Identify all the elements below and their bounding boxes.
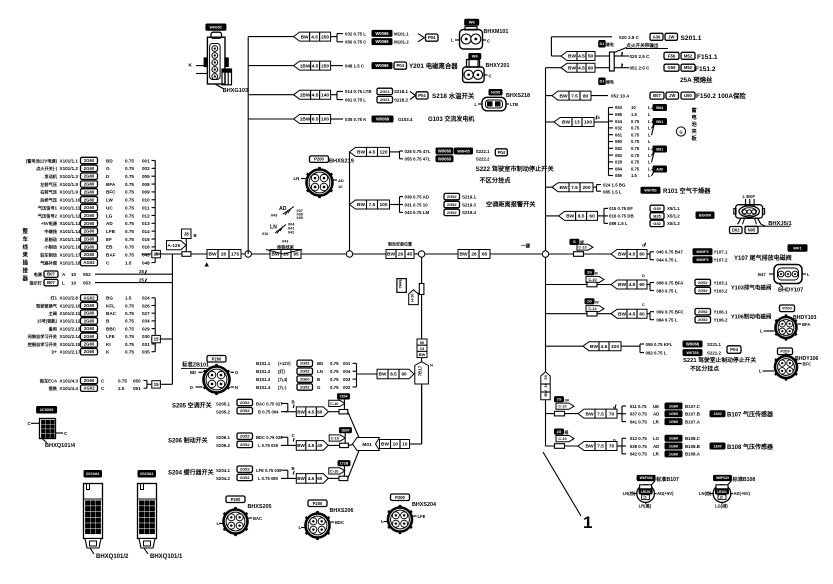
svg-text:60: 60 (317, 409, 323, 414)
svg-text:10: 10 (393, 442, 399, 448)
svg-text:B108 气压传感器: B108 气压传感器 (727, 443, 774, 451)
svg-text:池: 池 (692, 120, 698, 128)
svg-text:024: 024 (142, 296, 150, 301)
svg-text:驻车制动: 驻车制动 (40, 252, 58, 259)
svg-text:175: 175 (231, 252, 239, 258)
svg-text:BHXY201: BHXY201 (486, 63, 510, 69)
svg-text:2G: 2G (557, 430, 562, 434)
svg-text:200: 200 (582, 185, 590, 191)
svg-text:C-10: C-10 (588, 278, 596, 282)
svg-text:LN: LN (317, 369, 323, 374)
svg-text:2G: 2G (587, 300, 592, 304)
svg-text:2G52: 2G52 (447, 202, 458, 207)
svg-text:0.75: 0.75 (125, 334, 134, 339)
svg-text:035 0.75 K: 035 0.75 K (345, 117, 367, 122)
svg-text:标准B108: 标准B108 (732, 475, 756, 483)
svg-text:S222 驾驶室市制动停止开关: S222 驾驶室市制动停止开关 (476, 165, 555, 173)
svg-text:6.5: 6.5 (312, 117, 319, 123)
svg-text:45: 45 (407, 252, 413, 258)
svg-text:W0066: W0066 (375, 39, 389, 44)
svg-text:BAF: BAF (106, 253, 116, 258)
svg-text:X101/1.2: X101/1.2 (60, 166, 79, 171)
svg-text:X5/1.1: X5/1.1 (667, 206, 680, 211)
svg-text:B108.B: B108.B (685, 444, 700, 449)
svg-text:W0066: W0066 (375, 31, 389, 36)
svg-text:H-10: H-10 (411, 294, 415, 302)
svg-text:标准B107: 标准B107 (655, 475, 679, 483)
svg-text:A-125: A-125 (167, 243, 180, 248)
svg-text:B47: B47 (758, 272, 766, 277)
svg-text:LTB: LTB (510, 102, 518, 107)
svg-text:25: 25 (139, 269, 144, 274)
svg-text:4.5: 4.5 (601, 344, 608, 350)
svg-text:BD: BD (190, 370, 196, 375)
svg-text:器: 器 (22, 274, 29, 282)
svg-text:2G60: 2G60 (84, 213, 95, 218)
svg-text:0.75: 0.75 (125, 166, 134, 171)
svg-text:8.5: 8.5 (578, 214, 585, 220)
svg-text:7.5: 7.5 (369, 202, 376, 208)
svg-text:X101/2.13: X101/2.13 (60, 326, 81, 331)
svg-text:W0066: W0066 (686, 342, 700, 347)
svg-text:S219.4: S219.4 (462, 210, 476, 215)
svg-text:B04: B04 (656, 106, 664, 110)
svg-text:LR101: LR101 (717, 490, 727, 494)
svg-text:1G60: 1G60 (669, 404, 678, 408)
svg-text:140: 140 (321, 92, 329, 98)
svg-text:L 0.75 080: L 0.75 080 (258, 476, 279, 481)
svg-text:BDC: BDC (335, 520, 344, 525)
svg-text:电源: 电源 (34, 271, 43, 278)
svg-text:W0060: W0060 (438, 156, 452, 161)
svg-text:AD: AD (653, 444, 659, 449)
svg-text:L: L (648, 119, 651, 124)
svg-text:026: 026 (142, 303, 150, 308)
svg-text:AD: AD (106, 221, 113, 226)
svg-text:LG: LG (653, 436, 660, 441)
svg-text:089 1.5 L: 089 1.5 L (609, 221, 628, 226)
svg-text:线: 线 (23, 243, 29, 251)
svg-text:80: 80 (583, 93, 589, 99)
svg-text:BHXQ101/1: BHXQ101/1 (150, 554, 183, 560)
svg-text:A30: A30 (653, 34, 661, 39)
svg-text:B07: B07 (47, 272, 55, 277)
svg-text:2G60: 2G60 (84, 311, 95, 316)
svg-text:051: 051 (133, 386, 141, 391)
svg-text:S206.1: S206.1 (216, 435, 230, 440)
svg-text:BHXQ101/2: BHXQ101/2 (96, 554, 129, 560)
svg-text:26: 26 (398, 252, 404, 258)
svg-text:009 0.75 BFC: 009 0.75 BFC (656, 310, 684, 315)
svg-text:BW: BW (562, 120, 570, 126)
svg-text:70: 70 (609, 444, 615, 450)
svg-text:020 2.5 C: 020 2.5 C (619, 35, 640, 40)
svg-text:084: 084 (615, 166, 623, 171)
svg-text:B108.C: B108.C (685, 436, 701, 441)
svg-text:P04: P04 (498, 150, 506, 155)
svg-text:BHXG103: BHXG103 (223, 88, 249, 94)
svg-text:BW: BW (209, 252, 217, 258)
svg-text:气压信号2: 气压信号2 (38, 212, 58, 219)
svg-text:R101 空气干燥器: R101 空气干燥器 (663, 187, 711, 195)
svg-text:2G60: 2G60 (84, 326, 95, 331)
svg-text:标准ZB101: 标准ZB101 (181, 361, 209, 369)
svg-text:2G21: 2G21 (380, 97, 391, 102)
svg-text:061: 061 (615, 132, 623, 137)
svg-text:1.5: 1.5 (125, 260, 132, 265)
svg-text:X101/1.13: X101/1.13 (60, 221, 81, 226)
svg-text:LR: LR (653, 419, 660, 424)
svg-text:10: 10 (643, 496, 647, 500)
svg-text:LN: LN (294, 176, 300, 181)
svg-text:BW: BW (297, 409, 305, 414)
svg-text:BW: BW (568, 65, 576, 71)
svg-text:P200: P200 (782, 306, 792, 311)
svg-text:60: 60 (639, 311, 645, 317)
svg-text:AD(+5V): AD(+5V) (734, 491, 751, 496)
svg-text:D: D (613, 437, 616, 442)
svg-text:X101/1.10: X101/1.10 (60, 198, 81, 203)
svg-text:BD: BD (317, 361, 323, 366)
svg-text:X101/4.3: X101/4.3 (60, 378, 79, 383)
svg-text:W0066: W0066 (375, 63, 389, 68)
svg-text:B: B (292, 466, 295, 471)
svg-text:BW: BW (297, 476, 305, 481)
svg-text:LW: LW (106, 198, 114, 203)
svg-text:15号(钥匙): 15号(钥匙) (37, 318, 58, 325)
svg-text:15: 15 (154, 382, 160, 387)
svg-text:045 0.75 B47: 045 0.75 B47 (656, 250, 683, 255)
svg-text:B: B (595, 271, 598, 276)
svg-text:G103 交流发电机: G103 交流发电机 (428, 115, 474, 123)
svg-text:2G: 2G (587, 270, 592, 274)
svg-text:0.75: 0.75 (125, 182, 134, 187)
svg-text:L: L (648, 112, 651, 117)
svg-text:搭铁: 搭铁 (49, 385, 58, 392)
svg-text:B07: B07 (47, 280, 55, 285)
svg-text:3K: 3K (565, 398, 570, 403)
svg-text:B101.2: B101.2 (256, 369, 271, 374)
svg-text:X101/1.11: X101/1.11 (60, 205, 81, 210)
svg-text:2G21: 2G21 (380, 89, 391, 94)
svg-text:0.75: 0.75 (118, 378, 127, 383)
svg-text:AG02: AG02 (83, 386, 95, 391)
svg-text:2G60: 2G60 (84, 174, 95, 179)
svg-text:EF: EF (106, 237, 112, 242)
svg-text:X101/1.1: X101/1.1 (60, 158, 79, 163)
svg-text:2G52: 2G52 (240, 467, 251, 472)
svg-text:13: 13 (574, 120, 580, 126)
svg-text:1G60: 1G60 (669, 444, 678, 448)
svg-text:042 0.75: 042 0.75 (630, 452, 648, 457)
svg-text:4.5: 4.5 (312, 92, 319, 98)
svg-text:W675S: W675S (644, 189, 657, 193)
svg-text:L: L (648, 139, 651, 144)
svg-text:0.75: 0.75 (125, 198, 134, 203)
svg-text:LFE 0.75 030: LFE 0.75 030 (256, 468, 282, 473)
svg-text:4.5: 4.5 (308, 409, 315, 414)
svg-text:016 0.75 DB: 016 0.75 DB (609, 214, 634, 219)
svg-text:089: 089 (615, 173, 623, 178)
svg-text:2.5: 2.5 (118, 386, 125, 391)
svg-text:S204.1: S204.1 (216, 468, 230, 473)
svg-text:JW: JW (669, 93, 675, 98)
svg-text:C-10: C-10 (558, 405, 566, 409)
svg-text:BAC: BAC (253, 516, 262, 521)
svg-text:M52: M52 (684, 53, 693, 58)
svg-text:BDC 0.75 029: BDC 0.75 029 (256, 435, 283, 440)
svg-text:驾驶室换气: 驾驶室换气 (36, 302, 58, 309)
svg-text:规: 规 (564, 430, 569, 435)
svg-text:(蓄电池12V电源): (蓄电池12V电源) (26, 157, 58, 164)
svg-text:7M4E: 7M4E (399, 279, 403, 289)
svg-text:4.5: 4.5 (629, 252, 636, 258)
svg-text:008 0.75 BFA: 008 0.75 BFA (656, 280, 684, 285)
svg-text:F151.1: F151.1 (697, 54, 718, 61)
svg-text:S221.2: S221.2 (707, 350, 721, 355)
svg-text:BW: BW (379, 372, 387, 377)
svg-text:W6T65: W6T65 (686, 351, 698, 355)
svg-text:X101/2.17: X101/2.17 (60, 350, 81, 355)
svg-text:1BW: 1BW (300, 92, 311, 98)
svg-text:LFE: LFE (106, 334, 115, 339)
svg-text:4.5: 4.5 (308, 443, 315, 448)
svg-text:B107.A: B107.A (685, 419, 701, 424)
svg-text:1G60: 1G60 (669, 420, 678, 424)
svg-text:BW: BW (560, 93, 568, 99)
svg-text:BD: BD (106, 158, 113, 163)
svg-text:W6F65: W6F65 (457, 149, 469, 153)
svg-text:0.75: 0.75 (125, 229, 134, 234)
svg-text:2G60: 2G60 (84, 303, 95, 308)
svg-text:L: L (648, 166, 651, 171)
svg-text:2G60: 2G60 (84, 158, 95, 163)
svg-text:DJ: DJ (600, 80, 605, 84)
svg-text:080: 080 (615, 139, 623, 144)
svg-text:2G10A1: 2G10A1 (140, 472, 153, 476)
svg-text:束: 束 (23, 251, 29, 259)
svg-text:0.75: 0.75 (125, 190, 134, 195)
svg-text:P200: P200 (231, 497, 241, 502)
svg-text:BHXM101: BHXM101 (484, 29, 509, 35)
svg-text:043: 043 (271, 214, 277, 218)
svg-text:EB: EB (106, 245, 113, 250)
svg-text:7.5: 7.5 (597, 444, 604, 450)
svg-text:发动机: 发动机 (44, 173, 57, 180)
svg-text:4.5: 4.5 (308, 476, 315, 481)
svg-text:G: G (679, 129, 682, 134)
svg-text:X101/2.15: X101/2.15 (60, 342, 81, 347)
svg-text:主阀: 主阀 (49, 310, 57, 317)
svg-text:032: 032 (615, 126, 623, 131)
svg-text:2G60: 2G60 (84, 205, 95, 210)
svg-text:Y107.2: Y107.2 (714, 258, 728, 263)
svg-text:009: 009 (142, 190, 150, 195)
svg-text:320: 320 (611, 344, 619, 350)
svg-text:N: N (430, 363, 433, 368)
svg-text:80: 80 (588, 65, 594, 71)
svg-text:2G52: 2G52 (240, 442, 251, 447)
svg-text:C-10: C-10 (578, 246, 586, 250)
svg-text:S204.2: S204.2 (216, 476, 230, 481)
svg-text:083: 083 (615, 153, 623, 158)
svg-text:0.75: 0.75 (125, 342, 134, 347)
svg-text:JW: JW (668, 34, 674, 39)
svg-text:012 0.75: 012 0.75 (630, 436, 648, 441)
svg-text:UE: UE (653, 404, 659, 409)
svg-text:S205 空调开关: S205 空调开关 (172, 402, 212, 410)
svg-text:插: 插 (23, 259, 29, 267)
svg-text:X101/1.16: X101/1.16 (60, 245, 81, 250)
svg-text:X101/1.8: X101/1.8 (60, 182, 79, 187)
svg-text:右前气压: 右前气压 (40, 189, 58, 196)
svg-text:板: 板 (692, 134, 698, 142)
svg-text:1: 1 (583, 513, 592, 532)
svg-text:电: 电 (692, 113, 698, 121)
svg-text:2G60: 2G60 (84, 182, 95, 187)
svg-text:Y103排气电磁阀: Y103排气电磁阀 (731, 284, 772, 292)
svg-text:BW: BW (566, 214, 574, 220)
svg-text:S206.2: S206.2 (216, 443, 230, 448)
svg-text:172B: 172B (340, 461, 349, 465)
svg-text:P04: P04 (730, 347, 738, 352)
svg-text:008: 008 (142, 182, 150, 187)
svg-text:0.75: 0.75 (330, 361, 339, 366)
svg-text:N205: N205 (491, 91, 500, 95)
svg-text:2G60: 2G60 (84, 252, 95, 257)
svg-text:WF1: WF1 (793, 245, 802, 250)
svg-text:2G52: 2G52 (240, 475, 251, 480)
svg-text:J8: J8 (184, 231, 190, 236)
svg-text:BBC: BBC (106, 326, 117, 331)
svg-text:D+: D+ (52, 350, 58, 355)
svg-text:10: 10 (631, 105, 636, 110)
svg-text:D: D (642, 273, 645, 278)
svg-text:BAC: BAC (106, 311, 117, 316)
svg-text:BHXS218: BHXS218 (506, 93, 530, 99)
svg-text:L: L (451, 38, 454, 43)
svg-text:BW: BW (460, 252, 468, 258)
svg-text:052: 052 (83, 272, 91, 277)
svg-text:B: B (317, 377, 320, 382)
svg-text:002: 002 (142, 166, 150, 171)
svg-text:014: 014 (142, 229, 150, 234)
svg-text:2G60: 2G60 (300, 377, 311, 382)
svg-text:(九-): (九-) (278, 384, 287, 391)
svg-text:L: L (648, 126, 651, 131)
svg-text:P200: P200 (313, 501, 323, 506)
svg-text:7204: 7204 (340, 395, 348, 399)
svg-text:L: L (759, 369, 762, 374)
svg-text:X101/1.12: X101/1.12 (60, 213, 81, 218)
svg-text:P200: P200 (212, 356, 222, 361)
svg-text:P04: P04 (428, 35, 436, 40)
svg-text:X101/2.12: X101/2.12 (60, 319, 81, 324)
svg-text:X101/1.15: X101/1.15 (60, 237, 81, 242)
svg-text:W0068: W0068 (376, 117, 390, 122)
svg-text:011: 011 (142, 205, 150, 210)
svg-text:2G60: 2G60 (84, 229, 95, 234)
svg-text:70: 70 (609, 411, 615, 417)
svg-text:BFC: BFC (803, 362, 812, 367)
svg-text:S222.2: S222.2 (476, 157, 490, 162)
svg-text:012: 012 (142, 213, 150, 218)
svg-text:S201.1: S201.1 (681, 35, 702, 42)
svg-text:2G60: 2G60 (84, 189, 95, 194)
svg-text:BHXJ5/1: BHXJ5/1 (768, 221, 792, 227)
svg-text:不区分挂点: 不区分挂点 (480, 177, 512, 185)
svg-text:S205.2: S205.2 (216, 410, 230, 415)
svg-text:S221.1: S221.1 (707, 342, 721, 347)
svg-text:B01: B01 (656, 120, 663, 124)
svg-text:串联线束: 串联线束 (277, 244, 295, 251)
svg-text:夹: 夹 (692, 127, 698, 135)
svg-text:W6G5C: W6G5C (210, 25, 223, 29)
svg-text:026 0.75 47L: 026 0.75 47L (405, 149, 431, 154)
svg-text:BHXS204: BHXS204 (412, 502, 436, 508)
svg-text:G: G (106, 166, 110, 171)
svg-text:2G52: 2G52 (698, 317, 709, 322)
svg-text:7B17: 7B17 (418, 365, 423, 376)
svg-text:045: 045 (142, 253, 150, 258)
svg-text:250: 250 (321, 34, 329, 40)
svg-text:038 0.75: 038 0.75 (630, 444, 648, 449)
svg-text:0.75: 0.75 (125, 350, 134, 355)
svg-text:0.75: 0.75 (631, 166, 640, 171)
svg-text:100: 100 (379, 202, 387, 208)
svg-text:F150.2 100A保险: F150.2 100A保险 (696, 91, 746, 100)
svg-text:C-10: C-10 (588, 307, 596, 311)
svg-text:031: 031 (142, 342, 150, 347)
svg-text:10: 10 (71, 280, 77, 285)
svg-text:015: 015 (142, 237, 150, 242)
svg-text:X5/1.3: X5/1.3 (667, 221, 680, 226)
svg-text:B101.1: B101.1 (256, 361, 271, 366)
svg-text:2G52: 2G52 (698, 309, 709, 314)
svg-text:整: 整 (23, 227, 29, 235)
svg-text:L: L (760, 329, 763, 334)
svg-text:020 2.5 C: 020 2.5 C (630, 54, 651, 59)
svg-text:2CX066: 2CX066 (40, 408, 54, 412)
svg-text:1100: 1100 (713, 412, 721, 416)
svg-text:60: 60 (317, 476, 323, 481)
svg-text:BW: BW (357, 150, 365, 156)
svg-text:048 1.5 C: 048 1.5 C (345, 63, 365, 68)
svg-text:(灯): (灯) (278, 368, 286, 375)
svg-text:10: 10 (543, 383, 548, 387)
svg-text:0.75: 0.75 (125, 213, 134, 218)
svg-text:083 0.75 L: 083 0.75 L (656, 288, 677, 293)
svg-text:0.75: 0.75 (631, 139, 640, 144)
svg-text:继电: 继电 (605, 80, 614, 85)
svg-text:AG02: AG02 (83, 260, 95, 265)
svg-text:X5/1.2: X5/1.2 (667, 214, 680, 219)
svg-text:B01: B01 (656, 147, 663, 151)
svg-text:L: L (648, 153, 651, 158)
svg-text:G: G (235, 370, 238, 375)
svg-text:X101/2.10: X101/2.10 (60, 303, 81, 308)
svg-text:0.75: 0.75 (125, 205, 134, 210)
svg-text:继电: 继电 (605, 42, 614, 47)
svg-text:2G60: 2G60 (84, 237, 95, 242)
svg-text:W6: W6 (472, 54, 479, 59)
svg-text:BFA: BFA (802, 322, 810, 327)
svg-text:10: 10 (338, 184, 343, 189)
svg-text:B107 气压传感器: B107 气压传感器 (727, 411, 774, 419)
svg-text:50: 50 (543, 375, 548, 379)
svg-text:7.5: 7.5 (571, 93, 578, 99)
svg-text:W60F3: W60F3 (696, 250, 708, 254)
